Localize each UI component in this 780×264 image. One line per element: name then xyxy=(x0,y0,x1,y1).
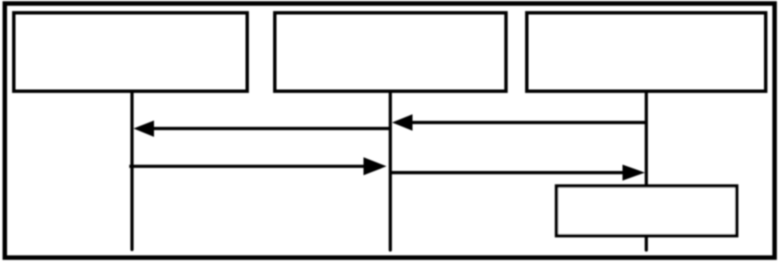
lifeline 1 xyxy=(130,93,133,250)
arrow message 1 head xyxy=(392,114,413,130)
lifeline 3 xyxy=(645,93,648,251)
box activation (bottom right) xyxy=(557,186,737,236)
box object 3 (top right) xyxy=(527,13,766,91)
arrow message 4 shaft (lifeline 2 to lifeline 3) xyxy=(390,171,624,174)
lifeline 2 xyxy=(389,93,392,251)
arrow message 1 shaft (lifeline 3 to lifeline 2) xyxy=(411,121,646,124)
box object 2 (top middle) xyxy=(275,13,506,91)
arrow message 2 shaft (lifeline 2 to lifeline 1) xyxy=(152,127,390,130)
arrow message 3 head xyxy=(364,157,387,175)
arrow message 2 head xyxy=(134,121,155,137)
arrow message 3 shaft (lifeline 1 to lifeline 2) xyxy=(129,165,366,168)
box object 1 (top left) xyxy=(14,13,247,91)
arrow message 4 head xyxy=(623,165,646,181)
